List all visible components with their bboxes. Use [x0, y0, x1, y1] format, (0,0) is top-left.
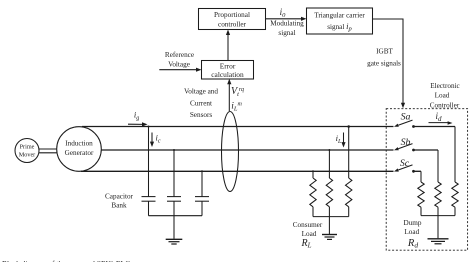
svg-text:controller: controller: [218, 21, 247, 29]
svg-text:Current: Current: [190, 100, 212, 108]
svg-text:Proportional: Proportional: [214, 11, 250, 19]
svg-text:Electronic: Electronic: [430, 82, 460, 90]
svg-text:Mover: Mover: [19, 152, 36, 159]
svg-text:Voltage and: Voltage and: [184, 88, 218, 96]
svg-text:Sa: Sa: [401, 112, 411, 123]
svg-text:Sc: Sc: [400, 158, 410, 169]
svg-text:Modulating: Modulating: [270, 20, 304, 28]
svg-text:Bank: Bank: [111, 202, 127, 210]
svg-text:Reference: Reference: [165, 51, 194, 59]
svg-text:IGBT: IGBT: [376, 48, 393, 56]
svg-text:signal: signal: [278, 29, 295, 37]
svg-text:Dump: Dump: [404, 219, 422, 227]
svg-text:Voltage: Voltage: [168, 61, 190, 69]
svg-text:Triangular carrier: Triangular carrier: [314, 12, 365, 20]
svg-text:gate signals: gate signals: [367, 60, 401, 68]
svg-text:Consumer: Consumer: [293, 221, 323, 229]
svg-text:Error: Error: [220, 62, 236, 71]
svg-text:Generator: Generator: [65, 149, 94, 157]
svg-text:Capacitor: Capacitor: [105, 193, 134, 201]
svg-text:Sb: Sb: [401, 137, 411, 148]
svg-text:Rd: Rd: [407, 238, 418, 250]
svg-text:calculation: calculation: [211, 70, 244, 79]
svg-text:Controller: Controller: [430, 101, 460, 109]
svg-text:Load: Load: [302, 230, 317, 238]
svg-text:Prime: Prime: [20, 143, 35, 150]
svg-text:Load: Load: [404, 228, 419, 236]
svg-text:Load: Load: [435, 91, 450, 99]
svg-text:Induction: Induction: [65, 140, 93, 148]
svg-text:Sensors: Sensors: [190, 111, 213, 119]
